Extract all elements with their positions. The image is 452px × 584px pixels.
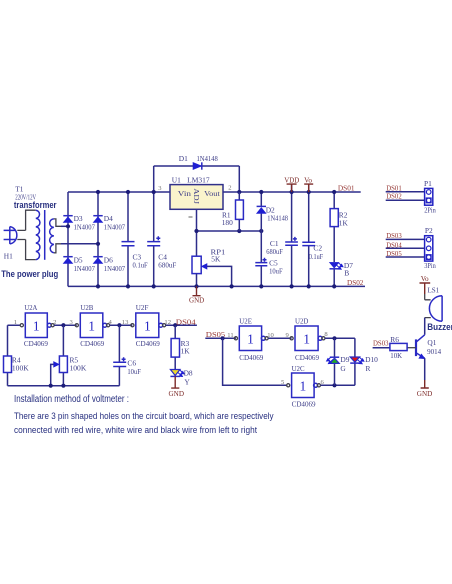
op-amp U1 LM317 box [170,185,223,210]
transistor Q1 [407,335,425,359]
svg-text:1N4148: 1N4148 [197,154,219,163]
svg-text:680uF: 680uF [266,247,283,256]
svg-text:U2C: U2C [292,364,305,373]
svg-text:13: 13 [122,319,129,326]
wire D9 column [334,338,336,385]
node R3 top [173,323,177,327]
svg-text:1N4148: 1N4148 [267,214,288,223]
wire RP1 bottom [196,274,198,287]
wire buzzer to collector [424,318,426,335]
svg-text:D10: D10 [365,355,378,364]
resistor R6 [390,343,407,350]
svg-text:The power plug: The power plug [1,269,58,280]
transformer T1 secondary [50,219,54,253]
transformer T1 primary [26,210,40,259]
svg-text:CD4069: CD4069 [292,400,316,409]
svg-text:DS03: DS03 [386,231,402,240]
wire secondary top tap [54,219,61,226]
wire D2/C5 column [260,192,262,286]
svg-text:1: 1 [88,319,95,334]
node RP1 bottom rail [194,284,198,288]
svg-text:connected with red wire, white: connected with red wire, white wire and … [14,425,257,435]
svg-text:G: G [340,364,346,373]
wire R2/D7 column [333,192,335,286]
wire U2D out rail [325,337,355,339]
svg-text:10K: 10K [390,351,402,360]
connector P1 [425,188,433,205]
svg-text:1: 1 [33,319,40,334]
resistor R3 [171,339,179,358]
wire DS03 to R6 [373,347,390,349]
node secondary-D4 [96,242,100,246]
svg-text:U1: U1 [172,175,181,184]
capacitor C4 [147,236,160,246]
wire R3 column [174,325,176,369]
power VDD [284,176,299,192]
node ADJ rail D2 [259,229,263,233]
capacitor C3 [122,242,135,246]
svg-text:D1: D1 [179,154,188,163]
svg-text:CD4069: CD4069 [295,353,319,362]
node Vout junction [237,190,241,194]
inverter U2B [75,313,109,338]
wire secondary bottom tap [54,244,61,253]
wire bottom rail row1 [8,385,120,387]
svg-text:1: 1 [300,379,307,394]
wire secondary to D4 junction [61,243,98,245]
svg-text:CD4069: CD4069 [136,339,160,348]
svg-text:11: 11 [227,332,233,339]
svg-text:Vout: Vout [204,189,221,198]
svg-text:Vo: Vo [304,176,312,184]
node C2 bottom [307,284,311,288]
ground under Q1 [417,380,433,398]
svg-text:transformer: transformer [14,200,57,210]
svg-text:U2F: U2F [136,303,149,312]
ground under D8 [169,376,185,397]
power Vo at buzzer [420,275,431,300]
svg-text:Q1: Q1 [427,338,436,347]
svg-text:Vo: Vo [421,275,429,283]
LED D10 red [350,357,364,364]
capacitor C1 [285,237,298,245]
svg-text:R: R [366,364,371,373]
node U2C branch [221,336,225,340]
svg-text:P1: P1 [424,179,432,188]
node RP1 wiper rail [230,284,234,288]
transformer core [44,210,46,260]
svg-text:1: 1 [303,332,310,347]
node bottom rail col2 [96,284,100,288]
svg-text:DS01: DS01 [338,183,355,192]
svg-text:D9: D9 [340,355,349,364]
wire D1 bypass loop [154,166,240,192]
node R5 wiper rail [49,384,53,388]
svg-text:680uF: 680uF [158,261,176,270]
svg-text:DS03: DS03 [373,338,389,347]
wire U2C out rail [321,384,355,386]
svg-text:10uF: 10uF [127,367,140,376]
wire bridge column 2 [97,192,99,286]
svg-text:Installation method of voltmet: Installation method of voltmeter : [14,394,129,405]
node C4 bottom [152,284,156,288]
capacitor C2 [302,242,315,245]
node D9 top [332,336,336,340]
resistor R4 [4,356,12,373]
svg-text:B: B [344,269,349,278]
buzzer LS1 [425,296,442,321]
wire R1 column [238,192,240,231]
svg-text:1K: 1K [339,219,349,228]
svg-text:DS04: DS04 [176,317,196,326]
wire bottom rail [68,285,365,287]
svg-text:U2B: U2B [80,303,93,312]
node ADJ rail left [194,229,198,233]
svg-text:U2D: U2D [295,317,309,326]
node D7 bottom [332,284,336,288]
svg-text:3Pin: 3Pin [424,261,436,270]
wire C3 column [127,192,129,286]
wire C6 column [118,325,120,386]
svg-text:GND: GND [169,390,185,398]
wire secondary to D3 junction [61,225,68,227]
resistor R2 [330,209,338,227]
node C6 top [117,323,121,327]
capacitor C5 [255,258,267,266]
node C1 top [290,190,294,194]
wire DS03 to P2 [386,238,425,240]
wire C4 column [153,166,155,286]
wire emitter down [424,358,426,380]
svg-text:1N4007: 1N4007 [104,223,126,232]
wire U2B out to U2F [110,324,133,326]
inverter U2A [20,313,54,338]
svg-text:CD4069: CD4069 [80,339,104,348]
LED D7 [330,262,344,269]
resistor R1 [236,200,244,219]
node ADJ rail R1 [237,229,241,233]
svg-text:U2A: U2A [24,303,38,312]
svg-text:ADJ: ADJ [192,188,201,204]
svg-text:2Pin: 2Pin [424,206,436,215]
inverter U2F [131,313,166,338]
node C1 bottom [290,284,294,288]
wire bridge column 1 [67,192,69,286]
diode D3 [63,216,72,223]
svg-text:1: 1 [144,319,151,334]
inverter U2D [290,326,325,351]
node C5 bottom [259,284,263,288]
svg-text:1K: 1K [181,346,191,355]
wire R5 column [62,325,64,386]
svg-text:0.1uF: 0.1uF [309,252,323,261]
svg-text:9014: 9014 [427,347,441,356]
wire U2A out to U2B [54,324,76,326]
LED D9 green [326,357,339,364]
svg-text:GND: GND [189,296,204,304]
wire DS05 to P2 [386,256,425,258]
svg-text:Vin: Vin [178,189,192,198]
svg-text:5K: 5K [211,255,221,264]
svg-text:100K: 100K [12,363,29,372]
svg-text:2: 2 [228,184,231,191]
svg-text:Buzzer: Buzzer [427,321,452,332]
node C4 top [152,190,156,194]
svg-text:1N4007: 1N4007 [74,264,96,273]
svg-text:180: 180 [222,218,233,227]
diode D4 [93,216,102,223]
svg-text:DS02: DS02 [386,192,402,201]
svg-text:0.1uF: 0.1uF [133,261,148,270]
svg-text:1: 1 [247,332,254,347]
wire top rail [68,191,361,193]
svg-text:U2E: U2E [239,317,252,326]
node C3 top [126,190,130,194]
svg-text:CD4069: CD4069 [24,339,48,348]
svg-text:10uF: 10uF [269,267,283,276]
node R2 top [332,190,336,194]
power Vo [304,176,313,192]
svg-text:There are 3 pin shaped holes o: There are 3 pin shaped holes on the circ… [14,411,274,421]
node C3 bottom [126,284,130,288]
wire DS01 to P1 [386,191,425,193]
svg-text:1: 1 [14,319,17,326]
wire U2C branch down [223,338,288,385]
diode D5 [63,257,72,264]
connector P2 [425,236,433,261]
svg-text:CD4069: CD4069 [239,353,263,362]
svg-text:D8: D8 [184,369,193,378]
node R5 top [61,323,65,327]
svg-text:VDD: VDD [284,176,299,184]
svg-text:LS1: LS1 [428,286,440,295]
inverter U2C [287,373,321,398]
diode D6 [93,257,102,264]
svg-text:R6: R6 [390,335,399,344]
svg-text:GND: GND [417,390,433,398]
wire U2F out DS04 [166,324,197,326]
diode D1 [193,162,202,169]
node R5 bottom rail [61,384,65,388]
power plug H1 [4,227,26,244]
potentiometer RP1 [192,256,232,286]
wire ADJ rail to D2 [197,230,262,232]
wire DS05 to U2E [205,337,236,339]
svg-text:LM317: LM317 [187,175,210,184]
svg-text:DS05: DS05 [386,249,402,258]
svg-text:100K: 100K [70,363,87,372]
svg-text:1N4007: 1N4007 [104,264,126,273]
svg-text:H1: H1 [4,252,13,261]
svg-text:1N4007: 1N4007 [74,223,96,232]
capacitor C6 [113,357,126,366]
pin number 1 (rotated dash) [189,216,193,218]
wire DS04 to P2 [386,247,425,249]
svg-text:DS02: DS02 [347,278,364,287]
node top rail col2 [96,190,100,194]
wire D10 column [354,338,356,385]
svg-text:P2: P2 [425,226,433,235]
wire C1 column [291,184,293,286]
svg-text:Y: Y [184,378,190,387]
node C2 top [307,190,311,194]
wire C2 column [308,184,310,286]
wire ADJ pin down [196,209,198,256]
wire R4 input column [8,325,21,386]
node secondary-D3 [66,224,70,228]
wire U2E out to U2D [268,337,291,339]
resistor R5 preset [51,356,68,386]
ground under RP1 [189,286,204,304]
inverter U2E [234,326,268,351]
wire DS02 to P1 [386,199,425,201]
diode D2 [257,206,266,213]
LED D8 yellow [170,370,184,377]
node D9 bottom [332,383,336,387]
node D2 top [259,190,263,194]
